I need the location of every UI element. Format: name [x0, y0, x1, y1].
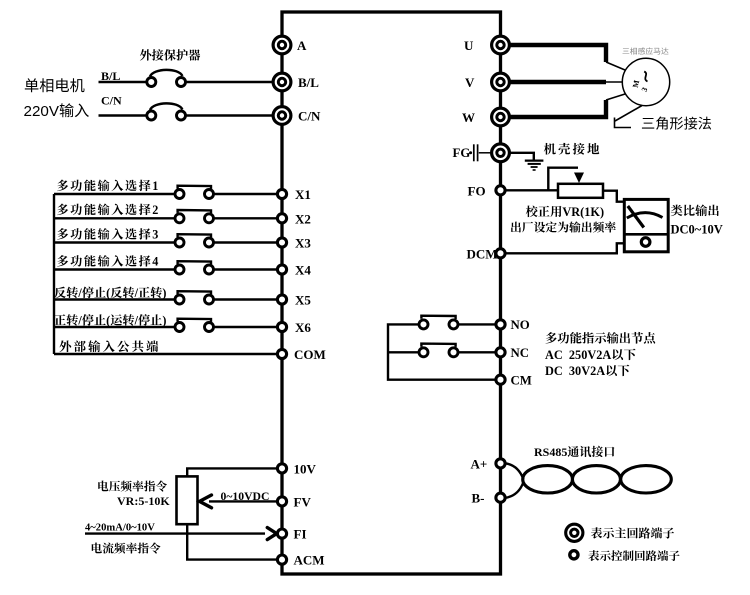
wire bus to switch X3: [54, 241, 176, 243]
switch SX6: [175, 319, 214, 332]
wire bus to switch X5: [54, 298, 176, 300]
svg-text:单相电机: 单相电机: [24, 74, 85, 96]
svg-text:COM: COM: [294, 347, 326, 362]
wire bus to switch X6: [54, 326, 176, 328]
relay contact NO: [419, 316, 458, 329]
RS485 cable ellipse 2: [572, 466, 620, 493]
breaker switch B/L: [147, 70, 186, 87]
main terminal C/N: [273, 107, 291, 125]
main terminal FG: [492, 144, 510, 162]
switch SX1: [175, 186, 214, 199]
wire FV wiper arrow: [200, 495, 279, 508]
legend control-circuit symbol: [570, 551, 578, 559]
switch SX5: [175, 291, 214, 304]
control terminal B-: [496, 493, 505, 502]
svg-text:X1: X1: [295, 187, 311, 202]
control terminal X5: [277, 295, 286, 304]
svg-text:NO: NO: [511, 318, 530, 332]
svg-text:DC 30V2A以下: DC 30V2A以下: [545, 361, 630, 379]
svg-text:FI: FI: [294, 527, 307, 542]
wire FI current input: [85, 528, 277, 540]
wire switch to terminal X5: [213, 298, 279, 300]
relay bracket wire: [388, 324, 495, 379]
potentiometer VR 5-10K body: [177, 476, 198, 524]
wire switch to terminal X1: [213, 193, 279, 195]
switch SX2: [175, 210, 214, 223]
svg-text:类比输出: 类比输出: [671, 201, 720, 219]
control terminal FI: [277, 529, 286, 538]
wire U to motor: [502, 45, 625, 70]
svg-text:V: V: [465, 75, 475, 90]
control terminal FO: [496, 186, 505, 195]
svg-text:表示主回路端子: 表示主回路端子: [591, 524, 675, 541]
svg-text:C/N: C/N: [298, 109, 321, 124]
svg-text:外部输入公共端: 外部输入公共端: [59, 337, 161, 355]
inverter main box: [282, 12, 501, 574]
potentiometer VR1K body: [558, 184, 603, 198]
svg-text:220V输入: 220V输入: [24, 99, 90, 121]
svg-text:0~10VDC: 0~10VDC: [221, 490, 270, 503]
main terminal W: [492, 108, 510, 126]
wire bus to switch X1: [54, 193, 176, 195]
wire NO: [458, 323, 496, 325]
svg-text:FV: FV: [294, 494, 312, 509]
svg-text:B/L: B/L: [298, 75, 319, 90]
wire bus to switch X4: [54, 268, 176, 270]
control terminal X4: [277, 265, 286, 274]
control terminal CM: [496, 375, 505, 384]
svg-text:机壳接地: 机壳接地: [544, 140, 602, 158]
control terminal FV: [277, 497, 286, 506]
wire bus to terminal COM: [54, 353, 278, 355]
wire NC right: [458, 351, 496, 353]
control terminal A+: [496, 459, 505, 468]
wire DCM to meter: [502, 243, 625, 253]
svg-text:A+: A+: [471, 456, 488, 471]
switch SX4: [175, 261, 214, 274]
svg-text:多功能输入选择2: 多功能输入选择2: [57, 201, 160, 218]
svg-text:W: W: [462, 110, 475, 125]
RS485 cable ellipse 1: [523, 466, 573, 493]
wire switch to terminal X6: [213, 326, 279, 328]
wire switch to terminal X3: [213, 241, 279, 243]
svg-text:AC 250V2A以下: AC 250V2A以下: [545, 345, 636, 363]
wire V to motor: [502, 80, 623, 84]
legend main-circuit symbol: [566, 524, 583, 541]
motor M1 three-phase induction: [622, 58, 669, 105]
svg-text:X2: X2: [295, 211, 311, 226]
svg-text:三角形接法: 三角形接法: [641, 114, 712, 134]
control terminal X2: [277, 214, 286, 223]
svg-text:外接保护器: 外接保护器: [140, 47, 201, 64]
svg-text:多功能输入选择3: 多功能输入选择3: [57, 226, 160, 243]
control terminal ACM: [277, 555, 286, 564]
svg-text:RS485通讯接口: RS485通讯接口: [534, 443, 615, 460]
FG chassis symbol: [469, 144, 490, 161]
svg-text:多功能指示输出节点: 多功能指示输出节点: [545, 329, 656, 347]
wire pot wiper: [548, 168, 584, 191]
svg-text:X6: X6: [295, 320, 311, 335]
svg-text:VR:5-10K: VR:5-10K: [117, 494, 170, 508]
svg-text:ACM: ACM: [294, 553, 325, 568]
wire FO to pot: [502, 189, 559, 191]
wire switch to terminal X2: [213, 217, 279, 219]
svg-text:FG: FG: [453, 146, 471, 160]
svg-text:反转/停止(反转/正转): 反转/停止(反转/正转): [54, 284, 166, 301]
main terminal U: [492, 36, 510, 54]
svg-text:X4: X4: [295, 263, 311, 278]
control terminal X3: [277, 238, 286, 247]
control terminal 10V: [277, 464, 286, 473]
wire pot to meter: [603, 191, 625, 202]
svg-text:FO: FO: [468, 183, 486, 198]
RS485 cable ellipse 3: [621, 466, 672, 493]
wire bus to switch X2: [54, 217, 176, 219]
control terminal NC: [496, 348, 505, 357]
svg-text:C/N: C/N: [101, 94, 122, 108]
wire FG to ground: [502, 153, 534, 160]
svg-text:X5: X5: [295, 293, 311, 308]
wire B- to RS485: [506, 482, 524, 498]
svg-text:多功能输入选择4: 多功能输入选择4: [57, 252, 160, 269]
breaker switch C/N: [147, 103, 186, 120]
svg-text:正转/停止(运转/停止): 正转/停止(运转/停止): [54, 311, 166, 328]
relay contact NC: [419, 344, 458, 357]
wire switch to terminal X4: [213, 268, 279, 270]
wire motor delta pointer: [615, 106, 643, 128]
svg-text:4~20mA/0~10V: 4~20mA/0~10V: [85, 522, 155, 533]
svg-text:电流频率指令: 电流频率指令: [91, 541, 161, 557]
svg-text:CM: CM: [511, 373, 532, 387]
wire A+ to RS485: [506, 463, 524, 479]
wire ACM from potentiometer: [187, 524, 278, 559]
main terminal A: [273, 36, 291, 54]
svg-text:B/L: B/L: [101, 69, 120, 83]
svg-text:表示控制回路端子: 表示控制回路端子: [588, 548, 680, 564]
control terminal DCM: [496, 249, 505, 258]
svg-text:10V: 10V: [294, 461, 317, 476]
svg-text:X3: X3: [295, 236, 311, 251]
svg-text:校正用VR(1K): 校正用VR(1K): [526, 202, 605, 220]
wire W to motor: [502, 94, 625, 117]
switch SX3: [175, 234, 214, 247]
wire B/L to terminal A/BL: [186, 81, 279, 83]
wire C/N to terminal: [186, 114, 279, 116]
svg-text:三相感应马达: 三相感应马达: [622, 46, 669, 57]
svg-text:出厂设定为输出频率: 出厂设定为输出频率: [510, 219, 616, 236]
control terminal X1: [277, 189, 286, 198]
svg-text:B-: B-: [472, 491, 485, 506]
main terminal V: [492, 73, 510, 91]
control terminal COM: [277, 349, 286, 358]
svg-text:NC: NC: [511, 346, 529, 360]
wire NC left: [388, 351, 418, 353]
svg-text:电压频率指令: 电压频率指令: [97, 479, 167, 495]
control terminal X6: [277, 322, 286, 331]
earth ground symbol: [525, 161, 544, 170]
svg-text:DC0~10V: DC0~10V: [671, 223, 723, 237]
wire 10V to potentiometer: [187, 468, 278, 477]
analog meter M: [624, 199, 668, 251]
svg-text:U: U: [464, 38, 474, 53]
main terminal B/L: [273, 73, 291, 91]
control terminal NO: [496, 320, 505, 329]
common bus vertical wire: [53, 194, 55, 354]
wire B/L input: [99, 81, 148, 83]
svg-text:多功能输入选择1: 多功能输入选择1: [57, 177, 160, 194]
svg-text:A: A: [297, 38, 307, 53]
svg-text:DCM: DCM: [467, 246, 498, 261]
wire C/N input: [99, 114, 148, 116]
